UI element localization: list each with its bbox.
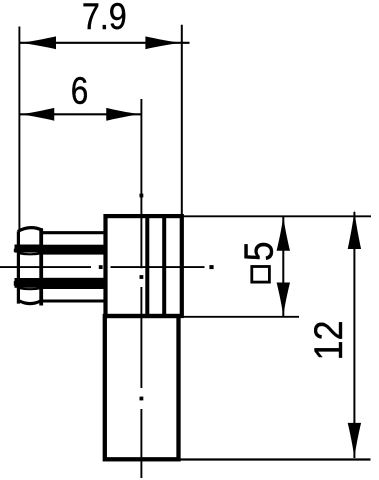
label square symbol	[252, 267, 270, 283]
upper band tab	[14, 249, 18, 252]
dim line 12	[353, 212, 355, 458]
lower band tab	[14, 281, 18, 286]
arrowhead square5 down	[277, 283, 290, 317]
upper band across sleeve	[15, 245, 43, 253]
centerline dots (horizontal)	[99, 265, 214, 269]
upper contact bar	[41, 245, 107, 255]
svg-text:7.9: 7.9	[82, 0, 127, 38]
body inner line 1	[145, 216, 149, 316]
sleeve arc below lower band	[18, 288, 42, 289]
extension line right middle (body bottom, dim 5)	[183, 316, 299, 318]
svg-text:5: 5	[236, 241, 282, 261]
sleeve left edge	[17, 231, 20, 303]
arrowhead 6 right	[106, 108, 141, 121]
centerline dots (vertical)	[140, 194, 144, 401]
arrowhead 7.9 left	[20, 36, 56, 49]
extension line left (for dims 7.9 and 6)	[18, 27, 20, 232]
body inner line 2	[162, 216, 166, 316]
arrowhead 7.9 right	[145, 36, 181, 49]
extension line bottom right (tube bottom)	[180, 458, 371, 460]
dim line 6	[20, 113, 142, 115]
horizontal centerline (connector axis)	[0, 266, 205, 268]
arrowhead square5 up	[277, 216, 290, 251]
sleeve right edge	[39, 228, 43, 305]
outer shell top line	[41, 231, 106, 234]
sleeve bottom arc	[18, 300, 42, 303]
svg-text:12: 12	[308, 320, 352, 360]
outer shell bottom line	[41, 299, 106, 302]
arrowhead 12 up	[348, 210, 361, 249]
sleeve top arc	[18, 228, 42, 232]
lower band across sleeve	[15, 278, 43, 288]
arrowhead 6 left	[20, 108, 55, 121]
extension line top right (body top)	[183, 215, 371, 217]
dim line square5	[282, 217, 284, 317]
sleeve arc below upper band	[18, 253, 42, 254]
lower tube	[105, 316, 179, 459]
lower contact bar	[41, 278, 107, 289]
dim line 7.9	[20, 42, 190, 44]
arrowhead 12 down	[348, 423, 361, 459]
extension line right of dim 7.9	[181, 25, 183, 216]
svg-text:6: 6	[71, 70, 89, 112]
body block	[106, 216, 182, 316]
vertical centerline (tube axis, also extension of dim 6)	[140, 99, 142, 478]
